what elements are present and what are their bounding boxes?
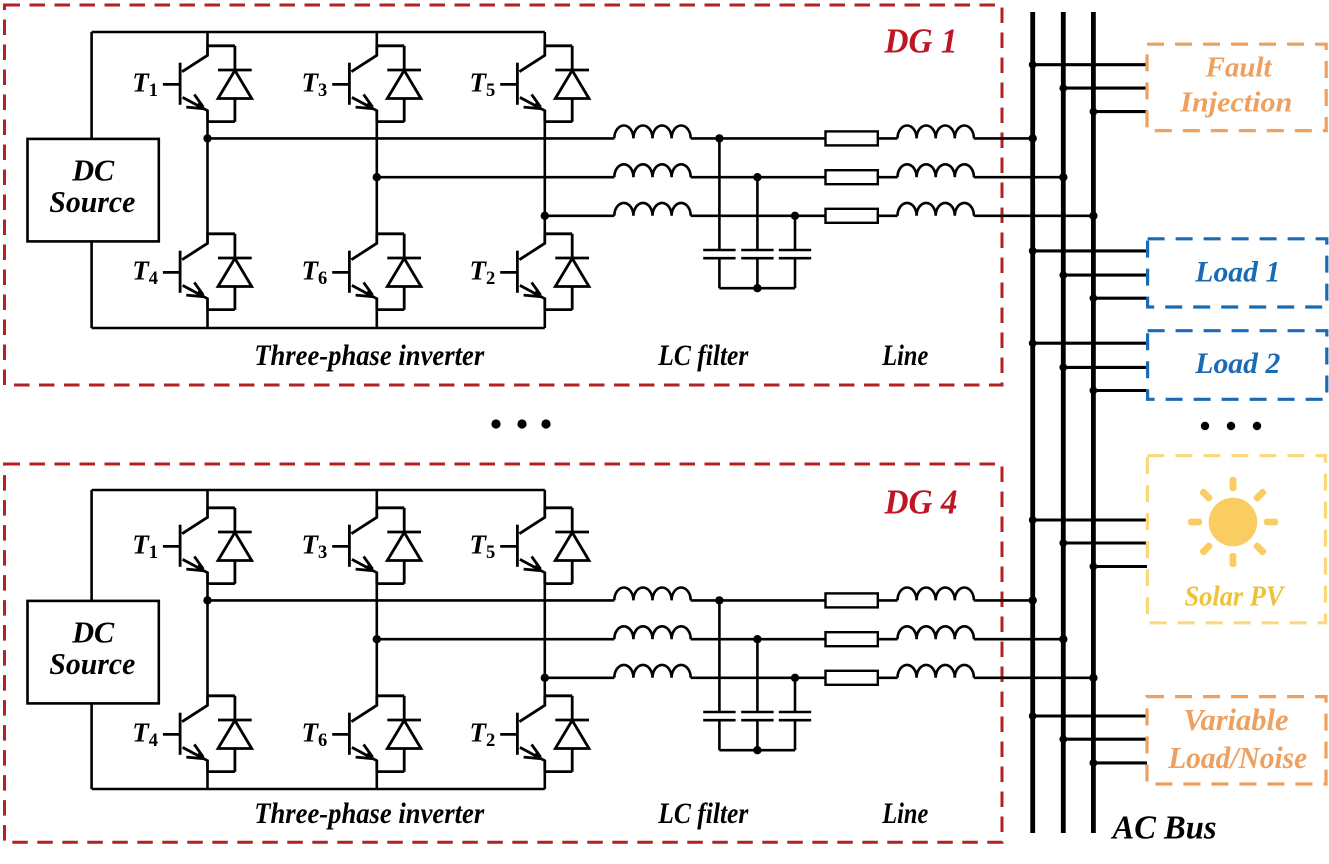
wire phase C from inverter to filter inductor [545,676,615,679]
wire phase A to AC bus 1 [974,137,1033,140]
Fault Injection block [1147,44,1326,130]
transistor T2 IGBT with freewheel diode [500,695,589,772]
wire DC source bottom lead [90,241,93,328]
wire capacitor C2 bottom lead [756,720,759,750]
node tap junction on bus 3 (Load 2) [1090,387,1098,395]
wire phase C to AC bus 3 [974,676,1094,679]
wire DC source bottom lead [90,703,93,789]
wire capacitor C3 top lead [794,678,797,712]
wire resistor to line inductor [878,676,898,679]
svg-text:Source: Source [49,185,135,219]
node phase C output junction [541,674,549,682]
wire capacitor C1 top lead [718,600,721,712]
capacitor C1 [703,712,735,720]
wire inverter leg 2 lower segment [375,310,378,328]
node tap junction on bus 3 (Solar PV) [1090,563,1098,571]
transistor T4 IGBT with freewheel diode [163,695,252,772]
inductor Lline2 [898,626,974,639]
svg-text:Solar PV: Solar PV [1185,581,1286,612]
wire phase A from inverter to filter inductor [208,599,615,602]
Variable Load/Noise block [1147,697,1326,784]
wire tap bus 2 to Load 2 [1063,366,1147,369]
wire tap bus 2 to Solar PV [1063,541,1147,544]
wire inverter leg 1 middle segment [206,122,209,234]
wire phase B to AC bus 2 [974,638,1064,641]
wire phase A to AC bus 1 [974,599,1033,602]
resistor Rline1 [826,131,878,145]
wire DC+ top rail [92,31,545,34]
wire phase B from inverter to filter inductor [377,638,615,641]
svg-text:DC: DC [71,154,115,188]
wire resistor to line inductor [878,215,898,218]
node phase C bus 3 junction [1089,212,1097,220]
wire phase C from inverter to filter inductor [545,215,615,218]
wire tap bus 1 to Load 2 [1033,342,1147,345]
svg-text:Variable: Variable [1184,703,1289,737]
wire capacitor C1 top lead [718,138,721,250]
wire capacitor C2 bottom lead [756,258,759,288]
inductor Lf3 filter [614,665,690,678]
node phase B bus 2 junction [1059,173,1067,181]
node tap junction on bus 1 (Fault Injection) [1029,61,1037,69]
DG unit 1 dashed boundary box [5,5,1003,385]
wire inverter leg 1 lower segment [206,772,209,789]
wire DC source top lead [90,32,93,139]
svg-text:Three-phase inverter: Three-phase inverter [254,797,484,830]
node capacitor C3 tap junction [791,212,799,220]
wire tap bus 2 to Fault Injection [1063,87,1147,90]
wire phase C filter node to line resistor [691,215,826,218]
transistor T1 IGBT with freewheel diode [163,45,252,122]
svg-text:Load 1: Load 1 [1194,256,1280,289]
transistor T6 IGBT with freewheel diode [332,233,421,309]
node phase B output junction [373,635,381,643]
node tap junction on bus 3 (Variable Load) [1090,759,1098,767]
inductor Lf1 filter [614,125,690,138]
wire inverter leg 2 middle segment [375,584,378,696]
transistor T6 IGBT with freewheel diode [332,695,421,772]
wire DC source top lead [90,490,93,601]
wire phase C filter node to line resistor [691,676,826,679]
svg-text:LC filter: LC filter [657,339,748,372]
DC source V1 box [28,139,159,242]
wire phase C to AC bus 3 [974,215,1094,218]
transistor T2 IGBT with freewheel diode [500,233,589,309]
resistor Rline2 [826,170,878,184]
wire capacitor C3 top lead [794,216,797,250]
Solar PV block [1147,456,1325,623]
inductor Lf2 filter [614,164,690,177]
svg-text:Line: Line [881,797,928,830]
wire tap bus 2 to Load 1 [1063,274,1147,277]
wire DC- bottom rail [92,327,545,330]
node tap junction on bus 2 (Solar PV) [1059,539,1067,547]
node phase A output junction [203,134,211,142]
svg-text:Injection: Injection [1179,88,1292,119]
inductor Lf1 filter [614,588,690,601]
capacitor C3 [779,712,811,720]
svg-text:Fault: Fault [1205,52,1273,83]
wire tap bus 2 to Variable Load [1063,738,1147,741]
wire phase A filter node to line resistor [691,599,826,602]
node phase B bus 2 junction [1059,635,1067,643]
capacitor C2 [741,250,773,258]
wire inverter leg 3 lower segment [543,310,546,328]
node tap junction on bus 1 (Variable Load) [1029,712,1037,720]
wire resistor to line inductor [878,599,898,602]
node phase A bus 1 junction [1029,134,1037,142]
wire tap bus 3 to Solar PV [1093,565,1147,568]
wire DC+ top rail [92,489,545,492]
svg-text:DG 4: DG 4 [884,483,958,522]
node tap junction on bus 3 (Load 1) [1090,294,1098,302]
svg-text:DC: DC [71,616,115,650]
wire resistor to line inductor [878,176,898,179]
wire inverter leg 3 lower segment [543,772,546,789]
DC source V4 box [28,601,159,704]
node tap junction on bus 1 (Load 2) [1029,339,1037,347]
resistor Rline3 [826,671,878,685]
wire tap bus 3 to Load 2 [1093,389,1147,392]
wire phase A from inverter to filter inductor [208,137,615,140]
wire capacitor C3 bottom lead [794,720,797,750]
node capacitor C1 tap junction [715,134,723,142]
svg-text:Three-phase inverter: Three-phase inverter [254,339,484,372]
wire tap bus 3 to Load 1 [1093,297,1147,300]
node tap junction on bus 1 (Load 1) [1029,247,1037,255]
node tap junction on bus 3 (Fault Injection) [1090,108,1098,116]
capacitor C1 [703,250,735,258]
transistor T3 IGBT with freewheel diode [332,45,421,122]
svg-text:LC filter: LC filter [657,797,748,830]
wire inverter leg 3 upper segment [543,32,546,46]
node tap junction on bus 2 (Load 1) [1059,271,1067,279]
wire capacitor neutral rail [719,287,795,290]
wire phase A filter node to line resistor [691,137,826,140]
node capacitor C1 tap junction [715,596,723,604]
wire inverter leg 2 lower segment [375,772,378,789]
node tap junction on bus 2 (Fault Injection) [1059,84,1067,92]
wire AC bus phase B (vertical) [1061,12,1066,833]
node phase A bus 1 junction [1029,596,1037,604]
wire phase B from inverter to filter inductor [377,176,615,179]
capacitor C3 [779,250,811,258]
node phase B output junction [373,173,381,181]
inductor Lline1 [898,125,974,138]
wire capacitor neutral rail [719,749,795,752]
node ellipsis dots between load blocks [1201,422,1261,430]
transistor T5 IGBT with freewheel diode [500,507,589,584]
node capacitor C2 tap junction [753,635,761,643]
transistor T5 IGBT with freewheel diode [500,45,589,122]
wire tap bus 1 to Fault Injection [1033,63,1147,66]
wire tap bus 1 to Solar PV [1033,518,1147,521]
wire resistor to line inductor [878,137,898,140]
node tap junction on bus 2 (Variable Load) [1059,735,1067,743]
svg-text:AC Bus: AC Bus [1111,809,1217,846]
inductor Lline3 [898,203,974,216]
wire inverter leg 3 middle segment [543,584,546,696]
transistor T1 IGBT with freewheel diode [163,507,252,584]
inductor Lline1 [898,588,974,601]
inductor Lf2 filter [614,626,690,639]
wire capacitor C3 bottom lead [794,258,797,288]
wire inverter leg 1 middle segment [206,584,209,696]
wire DC- bottom rail [92,788,545,791]
svg-text:Line: Line [881,339,928,372]
node tap junction on bus 2 (Load 2) [1059,364,1067,372]
wire inverter leg 2 middle segment [375,122,378,234]
node capacitor neutral junction [753,746,761,754]
wire AC bus phase C (vertical) [1091,12,1096,833]
wire capacitor C2 top lead [756,639,759,712]
wire AC bus phase A (vertical) [1030,12,1035,833]
wire resistor to line inductor [878,638,898,641]
inductor Lf3 filter [614,203,690,216]
DG unit 4 dashed boundary box [5,464,1003,842]
wire tap bus 3 to Fault Injection [1093,110,1147,113]
resistor Rline1 [826,593,878,607]
transistor T3 IGBT with freewheel diode [332,507,421,584]
node phase A output junction [203,596,211,604]
sun icon [1188,477,1278,567]
wire tap bus 3 to Variable Load [1093,761,1147,764]
wire tap bus 1 to Load 1 [1033,249,1147,252]
wire phase B filter node to line resistor [691,638,826,641]
svg-text:Source: Source [49,647,135,681]
wire inverter leg 2 upper segment [375,490,378,508]
wire capacitor C2 top lead [756,177,759,250]
resistor Rline3 [826,209,878,223]
wire phase B filter node to line resistor [691,176,826,179]
Load 2 block [1148,331,1327,400]
node phase C bus 3 junction [1089,674,1097,682]
node ellipsis dots between DG units [491,419,550,428]
transistor T4 IGBT with freewheel diode [163,233,252,309]
wire capacitor C1 bottom lead [718,258,721,288]
wire inverter leg 3 middle segment [543,122,546,234]
svg-text:DG 1: DG 1 [884,21,958,60]
node capacitor C3 tap junction [791,674,799,682]
inductor Lline3 [898,665,974,678]
svg-text:Load 2: Load 2 [1194,347,1280,380]
capacitor C2 [741,712,773,720]
wire tap bus 1 to Variable Load [1033,714,1147,717]
wire phase B to AC bus 2 [974,176,1064,179]
wire inverter leg 1 upper segment [206,32,209,46]
svg-text:Load/Noise: Load/Noise [1167,741,1307,775]
node tap junction on bus 1 (Solar PV) [1029,516,1037,524]
wire inverter leg 1 upper segment [206,490,209,508]
wire inverter leg 2 upper segment [375,32,378,46]
node capacitor C2 tap junction [753,173,761,181]
Load 1 block [1148,239,1327,307]
node phase C output junction [541,212,549,220]
node capacitor neutral junction [753,284,761,292]
resistor Rline2 [826,632,878,646]
inductor Lline2 [898,164,974,177]
wire inverter leg 1 lower segment [206,310,209,328]
wire capacitor C1 bottom lead [718,720,721,750]
wire inverter leg 3 upper segment [543,490,546,508]
